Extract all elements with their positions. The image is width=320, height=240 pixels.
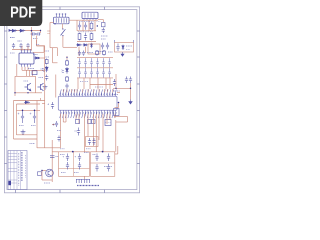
caps N1 r2 xyxy=(66,162,81,170)
wire K1 top xyxy=(22,46,28,51)
svg-text:+: + xyxy=(63,155,65,159)
label Q3 xyxy=(44,182,50,184)
plus marks N1 xyxy=(63,155,77,159)
svg-text:+: + xyxy=(75,155,77,159)
cap C21 xyxy=(47,102,54,109)
diode D7 xyxy=(83,44,89,47)
capacitor C12 xyxy=(45,75,48,81)
wire N2 right xyxy=(115,146,118,154)
wire D10 link xyxy=(39,57,44,59)
wire box bottom xyxy=(14,98,41,148)
wire U1 corner xyxy=(117,92,120,94)
junction caps xyxy=(22,110,36,112)
capacitor C3a xyxy=(31,32,36,35)
wire drop p1 xyxy=(30,114,61,148)
transistor Q3 xyxy=(46,169,54,177)
label R7 xyxy=(45,51,50,57)
mcu U1 bottom pins xyxy=(61,110,116,114)
arrow gnd J2 xyxy=(121,52,124,56)
wire left rail xyxy=(42,46,45,148)
diode D13 xyxy=(24,101,30,104)
junction Q bus xyxy=(14,92,28,93)
wire D3 tap xyxy=(37,36,45,46)
resistor R11 xyxy=(96,50,99,56)
wire drops xyxy=(78,78,113,89)
transformer T1 xyxy=(54,13,70,23)
transistor Q2 xyxy=(38,83,44,91)
label R6 xyxy=(24,80,29,82)
ground low xyxy=(21,130,26,135)
wire bus1 xyxy=(77,57,113,59)
diode D6 xyxy=(76,44,82,47)
capacitor C15 xyxy=(125,77,128,84)
wire S1 down xyxy=(63,36,77,48)
mcu bottom pin labels xyxy=(60,112,117,118)
diode D5 xyxy=(97,22,106,27)
label C17 xyxy=(75,130,78,132)
border zone ticks top-bottom xyxy=(16,7,105,193)
parts row0 xyxy=(78,51,93,56)
capacitor row B xyxy=(78,68,111,77)
wire AC input bus xyxy=(10,27,41,51)
capacitor C9 xyxy=(106,43,109,50)
mcu top pin labels xyxy=(60,89,117,95)
junction T1 pin xyxy=(54,23,55,24)
wire N1 box xyxy=(59,152,90,177)
wire into IC xyxy=(66,89,68,93)
label F1 xyxy=(48,31,51,34)
label C10 xyxy=(126,46,132,50)
diode D10 xyxy=(34,57,39,59)
resistor R9 xyxy=(66,60,69,66)
wire K1 bottom bus xyxy=(22,67,45,71)
ground xyxy=(43,85,48,90)
cap C22 xyxy=(50,156,59,158)
resistor R10 xyxy=(66,76,69,82)
resistor R2 xyxy=(90,22,93,30)
capacitor C17 xyxy=(77,128,80,136)
capacitor C2 xyxy=(19,43,22,49)
wire bus3 xyxy=(77,77,113,79)
wire top pin stubs xyxy=(63,89,113,93)
svg-text:PDF: PDF xyxy=(10,4,36,21)
resistor R14 xyxy=(88,120,92,124)
label K1 xyxy=(28,68,34,70)
label D11 xyxy=(41,68,44,70)
connector J3 xyxy=(76,179,90,183)
cap C20 xyxy=(30,111,37,123)
label R1 xyxy=(10,41,38,55)
junction xyxy=(31,30,33,32)
wire vcc bus xyxy=(69,19,98,21)
wire T1 bottom xyxy=(62,24,64,29)
svg-text:+: + xyxy=(30,112,32,116)
resistor R12 xyxy=(103,50,106,56)
transistor Q1 xyxy=(25,83,31,91)
LED D11 xyxy=(42,66,48,72)
diode D14 xyxy=(122,45,124,50)
capacitor C13 xyxy=(65,84,68,89)
junction below xyxy=(52,121,58,127)
capacitor C4 xyxy=(102,28,105,33)
capacitor C6 xyxy=(84,22,87,30)
svg-text:+: + xyxy=(18,112,20,116)
resistor R13 xyxy=(76,120,80,124)
label Q1 xyxy=(97,51,105,53)
wire N2 box xyxy=(91,152,115,177)
capacitor C16 xyxy=(129,77,132,84)
diode D2 xyxy=(19,29,25,32)
label D3 xyxy=(33,38,38,40)
diode D12 xyxy=(62,67,69,73)
wire snubber loop xyxy=(115,43,134,53)
PDF badge xyxy=(0,0,42,26)
wire Q3 xyxy=(41,170,52,180)
resistor R15 xyxy=(92,120,96,124)
label T row xyxy=(36,44,40,46)
junction C3 xyxy=(35,30,41,35)
caps N2 r1 xyxy=(95,154,110,162)
wire drop p4 xyxy=(85,114,94,152)
label C19 xyxy=(19,125,36,127)
wire drop p3 xyxy=(76,114,79,124)
caps N2 r2 xyxy=(95,164,110,172)
capacitor C5 xyxy=(78,22,81,30)
switch S1 xyxy=(61,28,66,36)
label row0 xyxy=(108,51,113,53)
label row2 xyxy=(78,31,93,33)
resistor R4 xyxy=(90,33,93,41)
resistor R8 xyxy=(45,59,48,65)
caps N1 r1 xyxy=(66,154,81,162)
svg-text:+: + xyxy=(47,103,49,107)
bridge rectifier B1 xyxy=(82,12,98,20)
capacitor row A xyxy=(78,58,111,67)
junction N1 xyxy=(60,149,91,153)
label bus xyxy=(79,20,94,22)
label N2 xyxy=(93,155,113,167)
label C16 xyxy=(114,91,121,95)
arrow gnd xyxy=(129,100,132,105)
junction right xyxy=(115,88,131,89)
label N1 xyxy=(60,153,89,155)
mcu U1 top pins xyxy=(61,93,116,97)
wire row2 xyxy=(77,41,96,43)
sheet inner border xyxy=(7,10,137,190)
junction xyxy=(97,25,98,26)
varistor stubs xyxy=(115,40,134,43)
diode D1 xyxy=(11,29,17,32)
capacitor C7 xyxy=(84,33,87,41)
capacitor C10 xyxy=(116,44,119,52)
border zone ticks left-right xyxy=(4,31,139,164)
capacitor C8 xyxy=(101,43,104,50)
relay K1 xyxy=(19,50,34,67)
wire drop p2 xyxy=(63,114,66,122)
wire box left xyxy=(14,101,45,140)
label C9b xyxy=(57,130,61,132)
wire gnd bus xyxy=(12,40,44,52)
wire drop p5 xyxy=(96,114,103,152)
crystal X1 xyxy=(105,120,111,126)
wire stub xyxy=(66,56,67,60)
wire drop p6 xyxy=(107,114,115,124)
wire T1 left xyxy=(50,23,54,48)
capacitor C3b xyxy=(36,32,40,35)
resistor R5 xyxy=(32,71,37,75)
resistor R3 xyxy=(78,33,81,41)
label D9 xyxy=(101,36,108,39)
capacitor C18 xyxy=(57,136,60,142)
title block xyxy=(8,151,27,190)
wire B1 to C4 xyxy=(98,20,103,23)
wire mesh xyxy=(77,20,96,31)
junction N2 xyxy=(102,151,104,153)
capacitor C3 xyxy=(26,43,29,49)
wire drop left xyxy=(52,140,58,182)
sheet outer border xyxy=(4,7,139,193)
wire right path xyxy=(114,102,128,152)
wire mid xyxy=(50,48,58,63)
cap pair box xyxy=(86,137,99,147)
wire right mesh xyxy=(113,83,131,100)
cap C19 xyxy=(18,111,25,123)
wire lower links xyxy=(79,44,100,56)
wire J3 link xyxy=(84,176,86,179)
wire K1 left down xyxy=(16,64,18,76)
input arrow xyxy=(9,29,12,32)
wire Q-box xyxy=(15,76,42,96)
wire J2 down xyxy=(115,74,117,88)
label N1 bottom xyxy=(61,172,79,174)
label C12 xyxy=(39,77,44,79)
diode D8 xyxy=(90,43,92,48)
capacitor C1 xyxy=(12,43,15,49)
wire Q-box top xyxy=(27,70,33,76)
resistor R16 xyxy=(38,172,42,176)
label C1 xyxy=(10,37,15,39)
capacitor C14 xyxy=(113,79,116,86)
wire bus2 xyxy=(77,67,113,69)
label J3 xyxy=(77,185,99,187)
wire right rail xyxy=(55,75,57,98)
mcu U1 body xyxy=(58,96,117,110)
